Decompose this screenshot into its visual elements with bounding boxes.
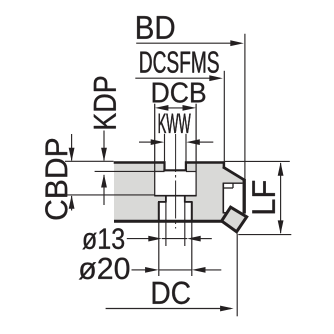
LF arrow up bbox=[278, 162, 284, 176]
pocket seat step vertical bbox=[232, 183, 234, 188]
keyway left wall bbox=[163, 161, 165, 171]
o20 middle line bbox=[159, 269, 192, 271]
CBDP leader lower bbox=[71, 196, 73, 211]
DCB dimension line bbox=[167, 107, 184, 109]
o13 arrow left bbox=[148, 236, 162, 242]
CBDP arrow up bbox=[69, 195, 75, 209]
CBDP leader upper bbox=[71, 134, 73, 161]
KDP leader upper bbox=[103, 131, 105, 161]
LF label bbox=[252, 200, 275, 214]
counterbore cavity bbox=[155, 171, 195, 195]
KWW arrow left bbox=[151, 139, 165, 145]
counterbore top shoulder right bbox=[186, 171, 196, 173]
CBDP arrow down bbox=[69, 148, 75, 162]
LF arrow down bbox=[278, 220, 284, 234]
DCSFMS extension line bbox=[223, 71, 225, 162]
KDP leader lower bbox=[103, 175, 105, 205]
DC label bbox=[153, 282, 170, 304]
keyway bottom extension line bbox=[95, 170, 164, 172]
KWW dimension line right bbox=[199, 141, 213, 143]
counterbore bottom bbox=[154, 195, 196, 197]
pocket left edge bbox=[222, 183, 224, 213]
o13 right line bbox=[200, 238, 212, 240]
DCB extension line left / counterbore left wall bbox=[154, 104, 156, 196]
screw hole neck right wall bbox=[184, 196, 186, 203]
body top edge right segment bbox=[185, 161, 224, 163]
lower bore left wall bbox=[158, 202, 160, 221]
DCSFMS dimension line bbox=[135, 77, 220, 79]
DCSFMS arrow bbox=[209, 75, 223, 81]
o20 label bbox=[79, 262, 96, 279]
DC arrow bbox=[220, 306, 234, 312]
BD label bbox=[137, 16, 153, 39]
o13 hidden line left bbox=[165, 202, 167, 246]
o20 leader bbox=[132, 269, 147, 271]
o20 arrow left bbox=[145, 267, 159, 273]
KDP label bbox=[94, 113, 116, 128]
o13 middle line bbox=[162, 238, 187, 240]
o20 right line bbox=[204, 269, 221, 271]
body bottom edge bbox=[114, 220, 222, 223]
KWW dimension line left bbox=[139, 141, 152, 143]
DCB label bbox=[153, 83, 169, 103]
insert pocket cavity bbox=[223, 183, 243, 213]
lower bore right wall bbox=[191, 202, 193, 221]
o20 arrow right bbox=[192, 267, 206, 273]
body right step bbox=[223, 161, 226, 168]
DCB arrow left bbox=[155, 105, 169, 111]
KWW extension line right bbox=[185, 134, 187, 162]
CBDP label bbox=[45, 200, 67, 219]
body right wall bbox=[243, 179, 246, 213]
LF dimension line bbox=[280, 163, 282, 233]
KWW label bbox=[159, 114, 166, 133]
keyway slot cavity bbox=[166, 160, 186, 170]
o20 extension line right bbox=[191, 221, 193, 276]
BD extension line bbox=[244, 34, 246, 180]
o13 hidden line right bbox=[184, 202, 186, 246]
top surface extension line bbox=[65, 160, 114, 162]
pocket seat step horizontal bbox=[223, 187, 233, 189]
DCB extension line right / counterbore right wall bbox=[195, 104, 197, 196]
o13 label bbox=[82, 233, 96, 250]
KWW arrow right bbox=[186, 139, 200, 145]
DCSFMS label bbox=[140, 52, 151, 73]
BD dimension line bbox=[136, 42, 241, 44]
o20 extension line left bbox=[158, 221, 160, 276]
keyway right wall bbox=[185, 161, 187, 171]
screw neck cavity bbox=[167, 196, 184, 203]
pocket top edge bbox=[223, 182, 243, 184]
counterbore bottom extension line bbox=[65, 194, 155, 196]
DCB arrow right bbox=[183, 105, 197, 111]
BD arrow bbox=[230, 40, 244, 46]
body silhouette bbox=[114, 161, 246, 222]
lower bore step right bbox=[184, 201, 192, 203]
o13 arrow right bbox=[187, 236, 201, 242]
lower counterbore cavity bbox=[160, 202, 191, 220]
keyway bottom bbox=[163, 169, 187, 171]
body top edge left segment bbox=[114, 161, 166, 163]
body chamfer edge bbox=[223, 167, 245, 181]
KDP arrow up bbox=[101, 174, 107, 188]
lower bore step left bbox=[158, 201, 167, 203]
insert bbox=[222, 207, 247, 232]
pocket bottom edge bbox=[223, 212, 228, 214]
o13 leader bbox=[127, 238, 150, 240]
counterbore top shoulder left bbox=[155, 171, 165, 173]
LF top extension line bbox=[225, 160, 290, 162]
DC extension line bbox=[236, 234, 238, 317]
screw hole neck left wall bbox=[165, 196, 167, 203]
centerline bbox=[175, 134, 177, 229]
DC dimension line bbox=[106, 308, 231, 310]
LF bottom extension line bbox=[238, 234, 291, 236]
KDP arrow down bbox=[101, 148, 107, 162]
KWW extension line left bbox=[164, 134, 166, 162]
